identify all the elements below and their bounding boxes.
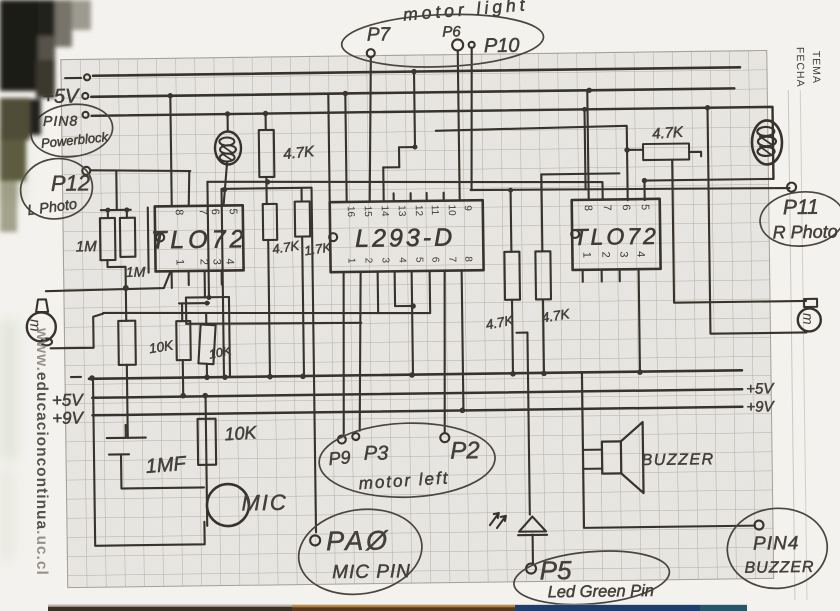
svg-text:10K: 10K — [224, 422, 258, 444]
svg-text:8: 8 — [462, 256, 473, 262]
svg-text:1: 1 — [173, 259, 185, 265]
svg-text:1M: 1M — [126, 264, 146, 280]
svg-text:6: 6 — [429, 257, 440, 263]
svg-text:12: 12 — [413, 205, 424, 217]
svg-text:2: 2 — [362, 258, 373, 264]
svg-text:TLO72: TLO72 — [151, 225, 248, 254]
svg-text:11: 11 — [429, 205, 440, 216]
svg-text:L293-D: L293-D — [355, 224, 455, 253]
svg-text:3: 3 — [210, 259, 222, 265]
svg-text:3: 3 — [617, 251, 629, 257]
svg-text:P9: P9 — [328, 447, 352, 469]
svg-text:+5V: +5V — [52, 390, 85, 409]
svg-text:MIC PIN: MIC PIN — [332, 561, 411, 583]
svg-text:TEMA: TEMA — [810, 51, 822, 84]
svg-text:P11: P11 — [783, 196, 819, 219]
svg-text:+9V: +9V — [746, 398, 775, 415]
svg-text:PIN8: PIN8 — [43, 112, 78, 128]
svg-text:6: 6 — [209, 209, 221, 215]
svg-text:1: 1 — [345, 258, 356, 264]
svg-text:13: 13 — [396, 205, 407, 217]
svg-text:4.7K: 4.7K — [652, 124, 685, 143]
svg-text:4: 4 — [396, 257, 407, 263]
svg-text:4.7K: 4.7K — [282, 143, 315, 163]
svg-text:BUZZER: BUZZER — [744, 559, 814, 577]
svg-text:Led Green Pin: Led Green Pin — [548, 582, 655, 601]
svg-text:9: 9 — [462, 205, 473, 211]
svg-text:14: 14 — [379, 205, 390, 217]
svg-text:5: 5 — [227, 208, 239, 214]
svg-text:P7: P7 — [367, 24, 392, 45]
svg-text:PAØ: PAØ — [326, 525, 390, 556]
svg-text:7: 7 — [197, 209, 209, 215]
svg-text:8: 8 — [582, 205, 594, 211]
svg-text:+5V: +5V — [746, 380, 775, 397]
svg-text:P6: P6 — [442, 23, 461, 40]
svg-text:m: m — [800, 313, 816, 325]
svg-text:R Photo: R Photo — [772, 222, 837, 243]
svg-text:5: 5 — [413, 257, 424, 263]
svg-text:1M: 1M — [76, 238, 98, 255]
svg-text:1MF: 1MF — [145, 453, 188, 478]
svg-text:10: 10 — [446, 205, 457, 217]
svg-text:P10: P10 — [484, 35, 520, 57]
svg-text:6: 6 — [620, 204, 632, 210]
svg-text:4: 4 — [223, 258, 235, 264]
svg-text:15: 15 — [362, 206, 373, 218]
svg-text:P2: P2 — [450, 437, 480, 464]
svg-text:PIN4: PIN4 — [753, 533, 800, 555]
svg-text:MIC: MIC — [241, 490, 288, 516]
svg-text:P3: P3 — [364, 442, 389, 464]
svg-text:4: 4 — [634, 251, 646, 257]
svg-text:TLO72: TLO72 — [573, 223, 659, 250]
svg-text:2: 2 — [599, 251, 611, 257]
svg-text:FECHA: FECHA — [794, 47, 807, 88]
svg-text:16: 16 — [345, 206, 356, 218]
svg-text:5: 5 — [639, 204, 651, 210]
svg-text:1: 1 — [580, 252, 592, 258]
svg-text:P12: P12 — [51, 170, 90, 196]
svg-text:BUZZER: BUZZER — [642, 451, 715, 469]
svg-text:www.educacioncontinua.uc.cl: www.educacioncontinua.uc.cl — [33, 327, 50, 576]
svg-text:P5: P5 — [539, 555, 572, 585]
svg-text:7: 7 — [601, 204, 613, 210]
svg-text:3: 3 — [379, 257, 390, 263]
svg-text:8: 8 — [173, 209, 185, 215]
svg-text:7: 7 — [446, 257, 457, 263]
svg-text:2: 2 — [197, 259, 209, 265]
svg-text:+9V: +9V — [52, 408, 85, 427]
